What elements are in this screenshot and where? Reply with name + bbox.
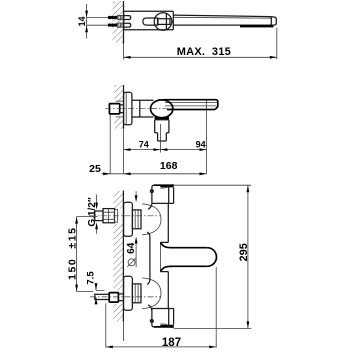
stem centerline (159, 124, 161, 153)
fitting socket (120, 105, 124, 113)
187 dimension line (106, 346, 216, 348)
inlet nipple threads upper (dots) (108, 16, 111, 19)
threaded section in wall lower (118, 23, 124, 27)
svg-text:MAX. 315: MAX. 315 (177, 46, 231, 58)
lower body dome arc (142, 278, 161, 309)
svg-text:7.5: 7.5 (85, 271, 96, 285)
handle inner lines (165, 103, 217, 106)
295 dimension line (247, 185, 249, 328)
cartridge circle (top view) (154, 13, 172, 31)
inlet nipple threads lower (dots) (108, 23, 111, 26)
lower platform right edges (169, 309, 174, 327)
25 left extension line (109, 114, 111, 174)
rod ends inside body lower (124, 23, 131, 27)
svg-text:187: 187 (162, 337, 181, 349)
handle grip (top view) (143, 18, 158, 25)
junction shadow under cartridge (155, 115, 169, 120)
187 right extension line (215, 267, 217, 348)
svg-text:168: 168 (160, 160, 178, 172)
svg-text:94: 94 (196, 140, 206, 150)
threaded section in wall upper (118, 15, 124, 19)
upper collar (132, 210, 141, 229)
spout round end (207, 248, 216, 267)
lower platform bottom edge (bold) (154, 326, 174, 328)
spout top edge (top view) (173, 15, 271, 17)
MAX 315 dimension line (124, 56, 277, 58)
svg-text:25: 25 (89, 163, 101, 175)
74/94 dimension line (124, 149, 207, 151)
Ø64 lower leader and arrow (135, 237, 138, 244)
svg-text:295: 295 (238, 243, 250, 261)
svg-text:74: 74 (139, 140, 149, 150)
spout trumpet base line (159, 242, 161, 271)
upper platform left edge (152, 185, 154, 203)
wall face extension line down (123, 129, 125, 174)
handle hook line upper (160, 187, 168, 188)
G.1/2 diameter dimension upper arrow (96, 195, 98, 204)
25/168 dimension line (102, 173, 207, 175)
wall hatch (top view) (113, 1, 124, 43)
central bar right edge upper segment (167, 203, 169, 242)
spout collar lines (160, 242, 168, 271)
spout inner highlight line (173, 16, 271, 19)
lower escutcheon disc (124, 276, 133, 310)
168 right arrow (200, 172, 207, 175)
centerline through cartridge (151, 108, 172, 110)
upper escutcheon disc (124, 202, 133, 236)
wall hole edges (116, 101, 124, 117)
cartridge ellipse (bold) (151, 100, 173, 118)
lower inlet pipe (95, 294, 109, 299)
flange inner line (125, 93, 127, 125)
MAX 315 right extension line (276, 28, 278, 60)
handle bottom edge (167, 109, 215, 111)
dimension 14 line (86, 4, 88, 39)
handle top edge (164, 100, 218, 110)
spout lower flare (161, 266, 172, 271)
wall hatch (middle view, below hole) (114, 117, 123, 129)
aerator black bar (240, 25, 274, 27)
spout upper flare (161, 243, 172, 248)
lower centerline (90, 296, 161, 298)
upper body dome arc (142, 204, 161, 235)
cartridge cover vertical line (165, 14, 167, 30)
central bar left edge (147, 232, 150, 285)
lower square fitting (109, 293, 118, 303)
svg-text:64: 64 (126, 242, 137, 254)
lower platform to dome transition (148, 305, 152, 311)
spout bottom edge (top view) (173, 24, 271, 26)
lower fitting socket (118, 294, 123, 301)
shared arrow at wall face (124, 172, 131, 175)
upper platform bottom line (152, 202, 174, 204)
lower platform left edge (152, 309, 154, 327)
7.5 dimension (96, 283, 105, 305)
295 top extension line (174, 184, 252, 186)
dimension 14 arrows (85, 11, 88, 18)
button circle upper (150, 190, 153, 193)
escutcheon flange (side view) (124, 92, 132, 125)
temperature button bump (171, 20, 173, 24)
wall face extension line down to MAX dim (123, 44, 125, 60)
lower collar (132, 284, 141, 303)
wall hatch (plan, between connections) (113, 224, 123, 291)
wall face line (plan) (122, 191, 124, 322)
central bar right edge lower segment (167, 272, 169, 309)
upper centerline (90, 215, 161, 217)
MAX 315 arrows (124, 56, 131, 59)
wall hatch (plan, below lower connection) (113, 304, 123, 322)
150 extension lines (77, 217, 98, 292)
74/94 arrows (124, 148, 131, 151)
upper washer (115, 209, 118, 222)
handle wedge (plan, upper) (160, 184, 174, 187)
25 outside arrow left (103, 172, 110, 175)
spout end cap (271, 17, 276, 26)
body ring joint (139, 100, 141, 117)
rod ends inside body upper (124, 16, 131, 20)
dimension 14 extension lines (87, 18, 108, 26)
wall face line (middle view) (123, 85, 125, 129)
handle tip extension line (206, 101, 208, 174)
button circle lower (150, 320, 153, 323)
spout holder cylinder (155, 120, 169, 133)
handle wedge (plan, lower) (160, 325, 174, 328)
Ø symbol (128, 259, 135, 266)
upper inlet pipe (95, 211, 103, 221)
wall hatch (plan, above upper connection) (113, 191, 123, 209)
150 dimension line (76, 217, 78, 292)
lower platform top line (152, 308, 174, 310)
spout tube (170, 248, 207, 267)
faucet body (top view) (124, 11, 174, 29)
upper platform top edge (bold) (154, 184, 174, 186)
body tube (132, 100, 154, 117)
Ø64 upper arrow (135, 191, 137, 196)
hand shower stem (158, 133, 167, 141)
G.1/2 diameter dimension lower arrow (95, 222, 98, 229)
upper platform to dome transition (148, 203, 152, 209)
svg-text:14: 14 (77, 16, 87, 26)
187 left extension line (105, 303, 107, 347)
svg-text:G.1/2″: G.1/2″ (87, 197, 98, 226)
centerline (middle view) (105, 108, 158, 110)
square wall fitting (109, 104, 119, 114)
upper union nut (103, 209, 115, 223)
wall face line (top view) (123, 1, 125, 44)
handle neck (top view) (158, 19, 171, 25)
handle hook line lower (160, 324, 168, 325)
upper platform right edges (169, 185, 174, 203)
wall hatch (middle view, above hole) (114, 85, 123, 101)
svg-text:150 ±15: 150 ±15 (67, 228, 79, 280)
295 bottom extension line (174, 327, 252, 329)
